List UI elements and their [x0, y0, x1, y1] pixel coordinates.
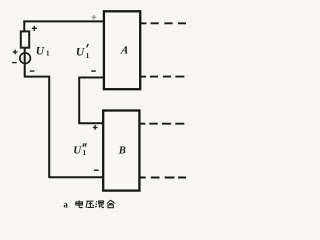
svg-text:1: 1 — [83, 149, 87, 157]
svg-text:U: U — [73, 145, 82, 157]
svg-text:1: 1 — [46, 50, 50, 58]
svg-text:1: 1 — [86, 52, 90, 60]
svg-text:U: U — [36, 46, 45, 58]
svg-text:B: B — [118, 145, 126, 156]
svg-text:a: a — [63, 199, 68, 209]
svg-text:U: U — [76, 47, 85, 59]
